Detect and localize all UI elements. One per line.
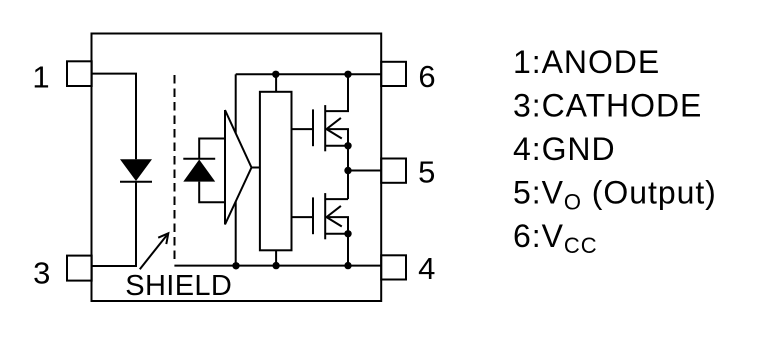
- package outline: [92, 34, 382, 302]
- driver block rectangle: [260, 92, 292, 251]
- pin 3 pad: [67, 256, 92, 281]
- svg-text:6:VCC: 6:VCC: [513, 218, 598, 258]
- pin 6 pad: [381, 62, 406, 86]
- driver top tap wire: [275, 74, 277, 92]
- wire LED cathode to pin3: [92, 182, 136, 266]
- photodiode top stub wire: [199, 139, 225, 159]
- Q2 gate wire: [292, 216, 313, 218]
- photodiode cathode bar: [183, 158, 215, 160]
- junction dot GND rail / driver: [272, 262, 279, 269]
- Vcc top rail wire: [236, 73, 382, 75]
- junction dot GND rail / Q2 source: [344, 262, 351, 269]
- svg-text:5:VO (Output): 5:VO (Output): [513, 174, 717, 214]
- shield dashed line: [174, 75, 176, 261]
- Q2 gate bar: [312, 197, 314, 234]
- Q1 body wire: [327, 129, 349, 146]
- pin 4 pad: [381, 255, 406, 279]
- junction dot Q1 source-body: [344, 142, 351, 149]
- op-amp GND tap wire: [235, 202, 237, 266]
- output rail to pin5: [348, 170, 381, 172]
- Q2 source to GND rail: [347, 234, 349, 266]
- Q1 channel line: [324, 105, 326, 151]
- Q2 drain from output rail: [347, 171, 349, 200]
- svg-text:6: 6: [418, 59, 435, 94]
- junction dot Q2 source-body: [344, 230, 351, 237]
- op-amp output stub: [252, 167, 260, 169]
- Q2 source stub: [325, 233, 348, 235]
- photodiode bottom stub wire: [199, 182, 225, 203]
- pin 1 pad: [67, 61, 92, 86]
- Q2 drain stub: [325, 198, 348, 200]
- Q2 body wire: [327, 217, 349, 234]
- svg-text:3:CATHODE: 3:CATHODE: [513, 87, 702, 123]
- Q1 drain stub: [325, 74, 348, 111]
- junction dot GND rail / amp tap: [232, 262, 239, 269]
- Q1 gate bar: [312, 109, 314, 146]
- junction dot top rail / Q1 drain: [344, 71, 351, 78]
- svg-text:1:ANODE: 1:ANODE: [513, 44, 660, 80]
- wire pin1 to LED anode: [92, 74, 136, 160]
- svg-text:SHIELD: SHIELD: [125, 270, 232, 302]
- Q2 body arrow: [327, 206, 342, 227]
- op-amp U1 triangle: [225, 110, 252, 225]
- svg-text:5: 5: [418, 154, 435, 189]
- photodiode D2 triangle: [183, 160, 215, 182]
- svg-text:4:GND: 4:GND: [513, 131, 616, 167]
- GND bottom rail wire: [174, 265, 381, 267]
- shield arrow line: [140, 235, 167, 269]
- Q1 gate wire: [292, 128, 313, 130]
- op-amp Vcc tap wire: [235, 74, 237, 133]
- svg-text:3: 3: [33, 255, 50, 290]
- junction dot output rail: [344, 167, 351, 174]
- shield arrow head: [158, 233, 168, 244]
- driver bottom tap wire: [275, 250, 277, 265]
- svg-text:1: 1: [32, 60, 49, 95]
- Q1 body arrow: [327, 118, 342, 139]
- svg-text:4: 4: [418, 251, 435, 286]
- pin 5 pad: [381, 159, 406, 183]
- LED D1 triangle: [120, 159, 152, 181]
- junction dot top rail / driver: [272, 71, 279, 78]
- LED cathode bar: [120, 181, 152, 183]
- Q1 source stub: [325, 145, 348, 147]
- Q1 source to output rail: [347, 146, 349, 171]
- Q2 channel line: [324, 193, 326, 239]
